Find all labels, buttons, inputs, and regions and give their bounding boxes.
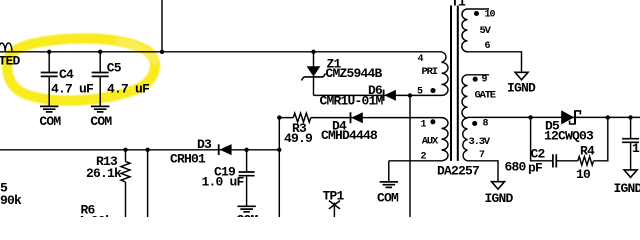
svg-text:1.0 uF: 1.0 uF: [202, 174, 245, 189]
svg-text:C2: C2: [531, 147, 546, 162]
svg-text:4.7 uF: 4.7 uF: [51, 82, 94, 97]
svg-text:pF: pF: [528, 161, 543, 176]
svg-text:COM: COM: [237, 212, 259, 217]
svg-text:R4: R4: [580, 144, 595, 159]
svg-text:AUX: AUX: [422, 136, 439, 148]
svg-text:680: 680: [505, 160, 527, 175]
svg-text:DA2257: DA2257: [437, 164, 479, 179]
svg-text:CMHD4448: CMHD4448: [321, 128, 378, 143]
svg-text:COM: COM: [377, 191, 399, 206]
svg-text:90k: 90k: [0, 193, 22, 208]
svg-text:T1: T1: [451, 0, 466, 9]
svg-text:IGND: IGND: [614, 181, 640, 196]
svg-text:COM: COM: [90, 114, 112, 129]
svg-text:CMR1U-01M: CMR1U-01M: [320, 93, 384, 108]
svg-text:4.99k: 4.99k: [77, 213, 113, 217]
svg-text:TP1: TP1: [323, 189, 345, 204]
svg-text:10: 10: [576, 167, 591, 182]
svg-text:IGND: IGND: [507, 81, 536, 96]
svg-text:TED: TED: [0, 53, 21, 68]
svg-text:49.9: 49.9: [284, 131, 313, 146]
svg-text:D3: D3: [197, 137, 212, 152]
svg-text:GATE: GATE: [475, 89, 496, 101]
svg-text:12CWQ03: 12CWQ03: [544, 128, 594, 143]
svg-text:COM: COM: [39, 114, 61, 129]
svg-text:CRH01: CRH01: [170, 152, 206, 167]
svg-text:C4: C4: [59, 67, 74, 82]
svg-text:IGND: IGND: [485, 191, 514, 206]
svg-text:26.1k: 26.1k: [86, 166, 122, 181]
svg-text:CMZ5944B: CMZ5944B: [326, 66, 383, 81]
svg-text:4.7 uF: 4.7 uF: [107, 82, 150, 97]
svg-text:C5: C5: [107, 61, 122, 76]
svg-text:PRI: PRI: [422, 66, 438, 78]
svg-text:1: 1: [632, 141, 640, 156]
svg-text:10: 10: [485, 9, 496, 20]
svg-text:3.3V: 3.3V: [469, 136, 491, 148]
